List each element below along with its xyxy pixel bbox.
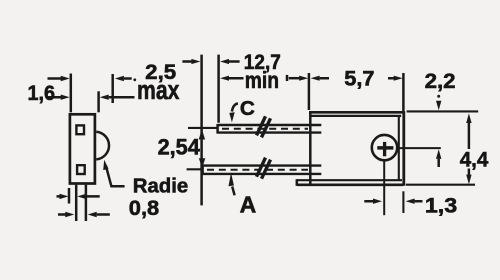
arrowheads: 1,3 [373, 199, 382, 204]
dot after 2,5 max arrow [133, 78, 136, 81]
left view: lower square hole [77, 165, 85, 174]
svg-text:1,6: 1,6 [28, 81, 56, 105]
12,7 dimension tails [229, 62, 244, 79]
C leader line [232, 103, 238, 111]
extension tick below package left edge [68, 188, 71, 204]
lower lead dashed centerline [207, 169, 308, 171]
right face extension down (1,3 reference) [402, 191, 404, 213]
arrowheads: lead width 0,8 [65, 212, 74, 217]
bottom edge extension line right (4,4 reference) [406, 184, 475, 186]
1,3 dimension tails (y=201.2) [364, 200, 422, 203]
body right face inner [398, 117, 400, 180]
dimension 2,5 max tails (y=78.5) [48, 77, 132, 80]
left view: package body outline [70, 114, 95, 183]
svg-text:5,7: 5,7 [344, 67, 374, 91]
arrowhead: at V1 y=61.5 [191, 59, 200, 64]
left view: lead left edge [75, 185, 78, 221]
arrowhead: 12,7 right at V3 [299, 76, 308, 81]
svg-text:0,8: 0,8 [129, 195, 159, 220]
left view: side bump radius 0,8 [96, 132, 109, 160]
top edge extension line right (2,2 reference) [407, 110, 479, 112]
arrowhead: Radie leader [103, 160, 108, 170]
svg-text:min: min [245, 67, 279, 93]
dimension row lead width 0,8 (y=214.5) tails [58, 213, 110, 216]
arrowheads: 12,7 at V2 [220, 59, 229, 64]
arrowheads: 4,4 [466, 113, 471, 123]
arrowhead: 2,2 up at hole centerline [436, 149, 441, 159]
lower lead bottom edge [203, 173, 322, 175]
lower lead tip cap [201, 165, 204, 175]
svg-text:1,3: 1,3 [425, 194, 457, 218]
extension line package right edge (top) [97, 91, 100, 112]
extension line V3 body left face [308, 73, 311, 110]
body bottom edge outer [297, 183, 404, 186]
arrowhead: A leader [229, 173, 234, 187]
extension line V4 body right face [402, 73, 405, 113]
arrowheads: 2,54 at lead centerlines [199, 129, 205, 139]
body right face outer [402, 111, 405, 186]
body bottom edge inner [297, 179, 402, 181]
dimension row offset (y=196.4) tails [57, 195, 100, 198]
2,2 lower arrow stem [437, 159, 440, 167]
body top edge outer [309, 111, 403, 114]
2,2 pointer dot [437, 95, 440, 98]
left view: lead right edge [85, 185, 88, 221]
left view: upper square hole [76, 125, 84, 134]
arrowhead: 2,2 down [436, 101, 441, 111]
hole centerline extension right [398, 147, 440, 149]
extension line V1 at lead tips (2,54 dimension line) [200, 55, 203, 206]
svg-text:max: max [137, 75, 180, 105]
A leader line [232, 187, 234, 196]
arrowheads: row offset below package [60, 194, 69, 199]
dimension 1,6 tails (y=97.2) [48, 96, 135, 99]
svg-text:2,54: 2,54 [158, 135, 201, 160]
arrow tail at y=61.5 left of V1 [182, 60, 192, 63]
hole centerline extension down [383, 161, 385, 215]
upper lead top edge [218, 124, 322, 126]
extension line package left edge (top) [70, 74, 73, 113]
arrowhead: C leader [229, 112, 234, 122]
body left face [309, 112, 312, 185]
5,7 dimension tails [320, 77, 395, 80]
2,54 centerline extension dashes [187, 128, 217, 169]
upper lead tip cap [216, 124, 219, 134]
4,4 dimension line segments [468, 122, 471, 176]
lower lead top edge [203, 164, 322, 166]
mounting hole circle [372, 135, 397, 160]
upper lead bottom edge [218, 131, 322, 133]
hole cross horizontal [377, 146, 393, 150]
arrowheads: dimension 2,5 max [61, 76, 70, 81]
upper lead dashed centerline [222, 128, 308, 130]
body bottom lip cap [296, 179, 299, 186]
Radie leader line [106, 166, 125, 187]
break marks lower lead [257, 158, 271, 179]
hole cross vertical [383, 142, 386, 156]
12,7 right tail [289, 77, 301, 80]
extension line V2 (12,7 left reference) [217, 55, 220, 123]
extension line bump apex 2,5 max [111, 74, 114, 103]
svg-text:C: C [240, 98, 255, 120]
stub after min [286, 75, 289, 81]
svg-text:2,2: 2,2 [425, 69, 456, 93]
svg-text:4,4: 4,4 [460, 147, 489, 171]
arrowheads: 5,7 [311, 76, 320, 81]
arrowheads: dimension 1,6 [61, 95, 70, 100]
body top edge inner [310, 115, 401, 117]
svg-text:A: A [240, 191, 257, 217]
break marks upper lead [257, 116, 271, 137]
svg-text:Radie: Radie [133, 175, 188, 198]
